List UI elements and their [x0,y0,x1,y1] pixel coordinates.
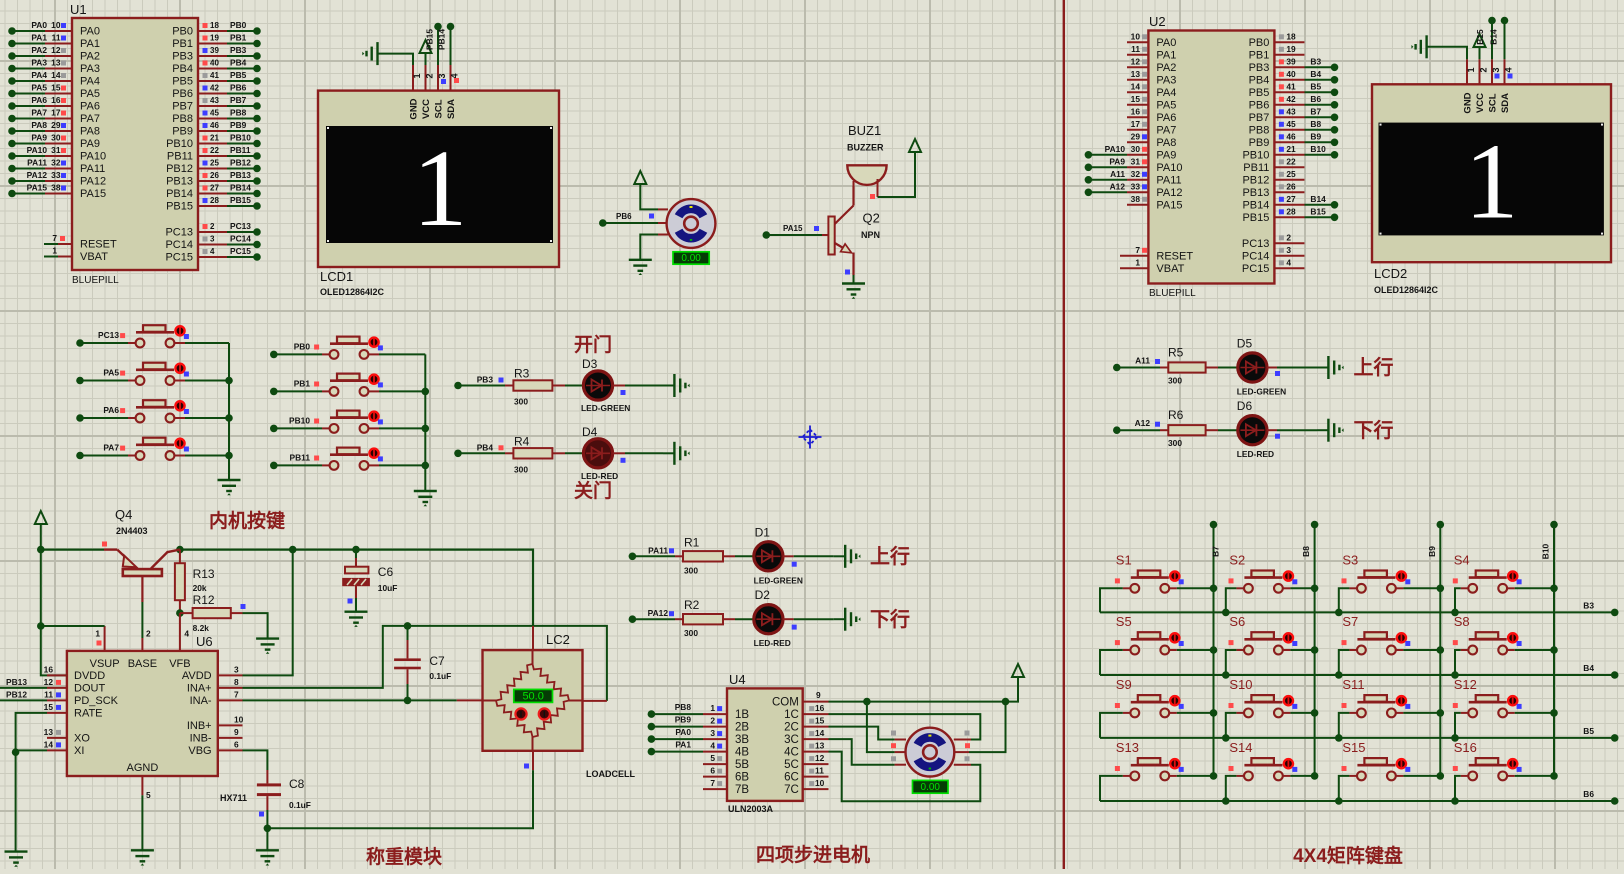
U2 pin PB13 (pin 26) [1274,191,1304,193]
U1 pin PA12 (pin 33) left wire [12,180,45,182]
svg-text:42: 42 [1286,94,1296,104]
U1 pin PB11 (pin 22) right wire [198,155,227,157]
U1 pin PA9 (pin 30) left wire [12,143,45,145]
svg-text:PB4: PB4 [172,63,193,75]
svg-text:3: 3 [210,235,215,244]
wire BUZ1 to power [878,152,916,197]
LED D5 (LED-GREEN) [1238,353,1267,382]
U1 pin PA4 (pin 14) left wire [12,80,45,82]
svg-text:S13: S13 [1116,740,1139,755]
U2 pin PB7 (pin 43) [1274,116,1304,118]
svg-text:PA12: PA12 [1156,187,1182,199]
svg-text:45: 45 [1286,119,1296,129]
svg-text:1: 1 [1466,67,1476,72]
svg-text:PA11: PA11 [27,158,47,168]
svg-text:38: 38 [1131,194,1141,204]
resistor R12 8.2k [180,612,193,614]
svg-text:16: 16 [815,703,825,713]
svg-text:PA7: PA7 [31,108,47,118]
LCD2 pin3 blue square [1495,74,1500,79]
svg-text:BASE: BASE [128,658,157,670]
wire collector rail right segment to LC2 [180,550,533,626]
svg-text:7: 7 [1135,245,1140,255]
svg-text:PB13: PB13 [6,677,27,687]
svg-text:PB15: PB15 [230,195,251,205]
svg-text:14: 14 [1131,81,1141,91]
svg-text:R13: R13 [193,567,215,581]
push button PB1 [270,388,278,396]
capacitor C7 0.1uF [407,626,409,640]
svg-text:3: 3 [710,728,715,738]
svg-text:上行: 上行 [1354,355,1394,379]
U2 pin PB14 (pin 27) [1274,204,1304,206]
push button PB11 [270,462,278,470]
svg-text:PB9: PB9 [675,715,692,725]
svg-text:PD_SCK: PD_SCK [74,695,119,707]
microcontroller U2 (BLUEPILL) body [1148,31,1274,284]
svg-text:38: 38 [51,183,61,193]
svg-text:1: 1 [52,246,57,256]
resistor R4 300 [505,452,513,454]
svg-text:B8: B8 [1301,546,1311,557]
U4 pin 2C (pin 15) [803,726,829,728]
U2 pin PB4 (pin 40) [1274,79,1304,81]
svg-text:D2: D2 [755,588,771,602]
svg-text:PB0: PB0 [230,20,247,30]
svg-text:PA11: PA11 [1156,174,1181,186]
svg-text:U2: U2 [1149,14,1166,29]
svg-text:12: 12 [51,45,61,55]
svg-text:PA9: PA9 [80,138,100,150]
LCD2 pin 2 stub [1479,59,1481,84]
U2 pin PC15 (pin 4) [1274,267,1304,269]
resistor R13 20k [179,550,181,564]
svg-text:INB+: INB+ [187,720,212,732]
BUZ1 red square [870,194,875,199]
U2 pin PB8 (pin 45) [1274,129,1304,131]
U2 pin PC14 (pin 3) [1274,255,1304,257]
svg-text:PB11: PB11 [1243,162,1269,174]
svg-text:19: 19 [210,34,219,43]
U1 pin PB3 (pin 39) right wire [198,55,227,57]
U4 pin 1B (pin 1) [703,713,727,715]
U2 pin PB6 (pin 42) [1274,104,1304,106]
svg-text:10: 10 [815,778,825,788]
U1 pin PC14 (pin 3) right wire [198,244,227,246]
svg-text:GND: GND [409,98,420,119]
display LCD1 OLED12864I2C body [318,91,559,267]
svg-text:43: 43 [210,96,219,105]
power symbol stepper supply [1012,664,1024,677]
resistor R3 300 [505,385,513,387]
LED D3 (LED-GREEN) [583,371,612,400]
svg-text:10: 10 [51,20,61,30]
svg-text:46: 46 [210,121,219,130]
svg-text:PB12: PB12 [6,689,27,699]
svg-text:45: 45 [210,109,219,118]
U1 pin PA0 (pin 10) left wire [12,30,45,32]
svg-text:8.2k: 8.2k [193,623,210,633]
svg-text:SDA: SDA [446,99,457,119]
R12 blue square [241,604,246,609]
wire bus of right button column to ground [424,354,426,491]
svg-text:PC13: PC13 [98,330,119,340]
svg-text:PA6: PA6 [31,95,47,105]
U1 pin PA10 (pin 31) left wire [12,155,45,157]
svg-text:U4: U4 [729,672,746,687]
wire 4C to M2 right-bottom pin [829,752,981,802]
svg-text:AGND: AGND [127,762,159,774]
U4 pin 4B (pin 4) [703,751,727,753]
power symbol feeding motor M1 [634,171,646,184]
U1 pin PA11 (pin 32) left wire [12,168,45,170]
node R13/R12/VFB junction [176,609,184,617]
svg-text:1: 1 [1135,257,1140,267]
svg-text:B8: B8 [1310,119,1321,129]
svg-text:0.1uF: 0.1uF [429,671,451,681]
svg-text:10uF: 10uF [378,583,398,593]
svg-text:PB7: PB7 [230,95,247,105]
svg-text:S12: S12 [1454,677,1477,692]
svg-text:PB0: PB0 [172,26,193,38]
display LCD2 OLED12864I2C body [1372,84,1611,262]
svg-text:PA7: PA7 [103,443,119,453]
wire net PA11 [629,553,637,561]
svg-text:11: 11 [1131,44,1140,54]
power symbol at LCD2 VCC pin [1474,34,1486,47]
svg-text:300: 300 [684,628,698,638]
svg-text:39: 39 [210,46,219,55]
svg-text:11: 11 [44,689,53,699]
svg-text:XI: XI [74,745,84,757]
svg-text:29: 29 [1131,131,1141,141]
svg-text:LCD1: LCD1 [320,269,353,284]
svg-text:42: 42 [210,84,219,93]
svg-text:4: 4 [1504,67,1514,72]
svg-text:PA5: PA5 [103,368,119,378]
svg-text:PA8: PA8 [1156,137,1176,149]
svg-text:4: 4 [450,73,460,78]
svg-text:2B: 2B [735,722,749,734]
wire net A11 [1113,364,1121,372]
wire net PA12 [629,615,637,623]
svg-text:S11: S11 [1342,677,1364,692]
svg-text:PC14: PC14 [1242,250,1270,262]
LC2 adjust buttons [515,708,526,719]
C8 blue square [259,812,264,817]
svg-text:关门: 关门 [574,479,612,502]
svg-text:PA1: PA1 [1156,49,1176,61]
svg-text:PA7: PA7 [1156,124,1176,136]
svg-text:28: 28 [210,196,219,205]
U4 pin 7C (pin 10) [803,788,829,790]
svg-text:PB14: PB14 [437,29,447,50]
svg-text:PB9: PB9 [172,126,193,138]
svg-text:PA10: PA10 [1156,162,1182,174]
svg-text:COM: COM [772,697,799,709]
svg-text:PB5: PB5 [172,76,193,88]
U1 pin PB15 (pin 28) right wire [198,205,227,207]
svg-text:PB10: PB10 [289,415,310,425]
motor M1 rpm display [673,252,709,264]
ground symbol for D6 [1328,419,1343,442]
wire PB6 to motor M1 [599,219,607,227]
svg-text:PB7: PB7 [172,101,193,113]
wire Q4 base to U6 BASE pin [141,576,143,602]
power symbol top-left (loadcell supply) [35,511,47,524]
svg-text:S2: S2 [1229,552,1245,567]
svg-text:4C: 4C [784,747,799,759]
svg-text:称重模块: 称重模块 [366,845,443,868]
svg-text:B14: B14 [1310,194,1326,204]
svg-text:15: 15 [815,716,825,726]
svg-text:PC15: PC15 [1242,263,1270,275]
svg-text:DOUT: DOUT [74,683,105,695]
svg-text:PC15: PC15 [165,252,193,264]
svg-text:2: 2 [146,629,151,639]
svg-text:PA10: PA10 [27,145,48,155]
loadcell LC2 body [483,650,583,751]
svg-text:LED-RED: LED-RED [581,471,618,481]
svg-text:VBAT: VBAT [1156,263,1184,275]
svg-text:15: 15 [44,702,54,712]
svg-text:LC2: LC2 [546,632,570,647]
svg-text:PA9: PA9 [1109,156,1125,166]
ground symbol below C6 [345,612,368,627]
svg-text:0.1uF: 0.1uF [289,800,311,810]
U4 pin 4C (pin 13) [803,751,829,753]
svg-text:PA11: PA11 [80,163,105,175]
wire bus of left button column to ground [228,343,230,480]
svg-text:40: 40 [1286,69,1296,79]
U1 pin PA1 (pin 11) left wire [12,43,45,45]
ground symbol below AGND [131,850,154,865]
svg-text:33: 33 [51,170,61,180]
svg-text:PB0: PB0 [294,341,311,351]
svg-text:0.00: 0.00 [921,782,941,793]
svg-text:PB11: PB11 [230,145,251,155]
svg-text:C7: C7 [429,654,445,668]
ground symbol for D3 [674,374,689,397]
svg-text:14: 14 [44,739,54,749]
svg-text:RESET: RESET [1156,250,1193,262]
svg-text:8: 8 [234,677,239,687]
svg-text:PA4: PA4 [1156,87,1176,99]
wire net PB4 [454,450,462,458]
svg-text:PA2: PA2 [80,51,100,63]
svg-text:B4: B4 [1583,663,1594,673]
svg-text:PB3: PB3 [172,51,193,63]
svg-text:PB11: PB11 [167,151,193,163]
svg-text:PB1: PB1 [230,33,247,43]
svg-text:S9: S9 [1116,677,1132,692]
svg-text:PA12: PA12 [648,608,669,618]
svg-text:S5: S5 [1116,614,1132,629]
svg-text:PA2: PA2 [1156,62,1176,74]
svg-text:PB14: PB14 [166,188,193,200]
svg-text:40: 40 [210,59,219,68]
svg-text:BLUEPILL: BLUEPILL [1149,288,1196,299]
push button PB0 [270,351,278,359]
svg-text:B7: B7 [1310,106,1321,116]
svg-text:PA10: PA10 [80,151,106,163]
U2 pin PA9 (pin 30) [1127,154,1148,156]
svg-text:3: 3 [1491,67,1501,72]
LED D4 (LED-RED) [583,439,612,468]
svg-text:PA5: PA5 [1156,99,1176,111]
stepper motor M2 pin stubs [895,739,906,741]
svg-text:PA15: PA15 [1156,199,1182,211]
svg-text:3B: 3B [735,734,749,746]
LCD1 pin3 blue square [441,79,446,84]
svg-text:300: 300 [684,565,698,575]
LC2 bridge diamond [533,664,570,701]
U2 pin PA8 (pin 29) [1127,141,1148,143]
svg-text:PB8: PB8 [172,113,193,125]
U4 pin COM (pin 9) [803,701,829,703]
chip U6 HX711 body [67,651,218,776]
svg-text:S7: S7 [1342,614,1358,629]
svg-text:PA15: PA15 [783,224,803,233]
svg-text:6: 6 [710,766,715,776]
svg-text:PB12: PB12 [1242,174,1269,186]
wire R12 to ground [243,613,268,639]
U1 pin PB7 (pin 43) right wire [198,105,227,107]
wire supply vertical to DVDD [41,550,67,676]
ground symbol at LCD1 GND pin [378,54,414,65]
LCD1 pin 1 stub [412,65,414,91]
U2 pin PB11 (pin 22) [1274,166,1304,168]
svg-text:1: 1 [413,127,468,249]
svg-text:5C: 5C [784,759,799,771]
U4 pin 1C (pin 16) [803,713,829,715]
microcontroller U1 (BLUEPILL) body [72,18,198,270]
svg-text:PA15: PA15 [27,183,48,193]
svg-text:四项步进电机: 四项步进电机 [756,843,870,866]
origin marker [799,426,822,449]
U2 pin PA3 (pin 13) [1127,79,1148,81]
U2 pin PA7 (pin 17) [1127,129,1148,131]
svg-text:21: 21 [1286,144,1296,154]
svg-text:PA3: PA3 [80,63,100,75]
U6 pin INA- (pin 7) [218,699,243,701]
svg-text:30: 30 [1131,144,1141,154]
U1 pin PB0 (pin 18) right wire [198,30,227,32]
svg-text:B6: B6 [1583,789,1594,799]
push button PC13 [76,339,84,347]
LCD2 pin4 blue square [1508,74,1513,79]
U1 pin PA7 (pin 17) left wire [12,118,45,120]
svg-text:PB4: PB4 [1249,74,1270,86]
U4 pin 2B (pin 2) [703,726,727,728]
svg-text:3: 3 [234,664,239,674]
U6 pin INB- (pin 9) [218,737,243,739]
svg-text:D4: D4 [582,425,598,439]
svg-text:PA9: PA9 [1156,149,1176,161]
svg-text:5B: 5B [735,759,749,771]
svg-text:下行: 下行 [870,607,910,631]
svg-text:U1: U1 [70,2,87,17]
U1 pin PB12 (pin 25) right wire [198,168,227,170]
resistor R6 300 [1160,429,1168,431]
Q2 emitter blue square [845,270,850,275]
svg-text:7: 7 [52,233,57,243]
keypad column bus wires B7-B10 [1210,521,1218,529]
U2 pin PB3 (pin 39) [1274,66,1304,68]
svg-text:D1: D1 [755,525,771,539]
svg-text:PB6: PB6 [230,83,247,93]
svg-text:PA1: PA1 [80,38,100,50]
svg-text:A12: A12 [1110,181,1126,191]
svg-text:5: 5 [710,753,715,763]
svg-text:B5: B5 [1583,726,1594,736]
svg-text:4: 4 [1286,257,1291,267]
svg-text:VBAT: VBAT [80,251,108,263]
svg-text:BUZ1: BUZ1 [848,123,881,138]
svg-text:PA4: PA4 [31,70,47,80]
svg-text:PB12: PB12 [166,163,193,175]
svg-text:300: 300 [1168,438,1182,448]
svg-text:10: 10 [234,714,244,724]
svg-text:S10: S10 [1229,677,1252,692]
svg-text:U6: U6 [196,634,213,649]
U2 pin PA5 (pin 15) [1127,104,1148,106]
svg-text:B14: B14 [1489,29,1499,45]
wire PA15 to Q2 base [763,231,771,239]
resistor R1 300 [675,555,683,557]
svg-text:VSUP: VSUP [90,658,120,670]
stepper motor M2 display [913,780,949,793]
ground symbol right button column [414,491,437,506]
svg-text:INB-: INB- [190,733,212,745]
svg-text:PA3: PA3 [31,58,47,68]
U4 pin 3B (pin 3) [703,738,727,740]
svg-text:31: 31 [1131,156,1141,166]
svg-text:B9: B9 [1310,131,1321,141]
svg-text:PA0: PA0 [31,20,47,30]
ground symbol for D5 [1328,356,1343,379]
svg-text:3C: 3C [784,734,799,746]
svg-text:SDA: SDA [1500,93,1511,113]
LED D1 (LED-GREEN) [754,542,783,571]
svg-text:INA+: INA+ [187,683,212,695]
svg-text:S1: S1 [1116,552,1132,567]
svg-text:22: 22 [1286,156,1296,166]
svg-text:C6: C6 [378,565,394,579]
svg-text:内机按键: 内机按键 [209,509,285,532]
svg-text:PA7: PA7 [80,113,100,125]
svg-text:PA1: PA1 [31,33,47,43]
U1 pin PB13 (pin 26) right wire [198,180,227,182]
svg-text:DVDD: DVDD [74,670,105,682]
svg-text:B7: B7 [1211,546,1221,557]
svg-text:0.00: 0.00 [681,253,701,264]
svg-text:32: 32 [1131,169,1141,179]
svg-text:SCL: SCL [1488,93,1499,112]
svg-text:3: 3 [1286,245,1291,255]
svg-text:D3: D3 [582,357,598,371]
U2 RESET pin 7 [1120,255,1148,257]
svg-text:1: 1 [1465,123,1519,242]
svg-text:PB6: PB6 [1249,99,1270,111]
svg-text:下行: 下行 [1354,418,1394,442]
svg-text:S8: S8 [1454,614,1470,629]
svg-text:R12: R12 [193,593,215,607]
svg-text:上行: 上行 [870,544,910,568]
svg-text:PB10: PB10 [166,138,193,150]
svg-text:5: 5 [146,790,151,800]
U2 pin PA15 (pin 38) [1127,204,1148,206]
